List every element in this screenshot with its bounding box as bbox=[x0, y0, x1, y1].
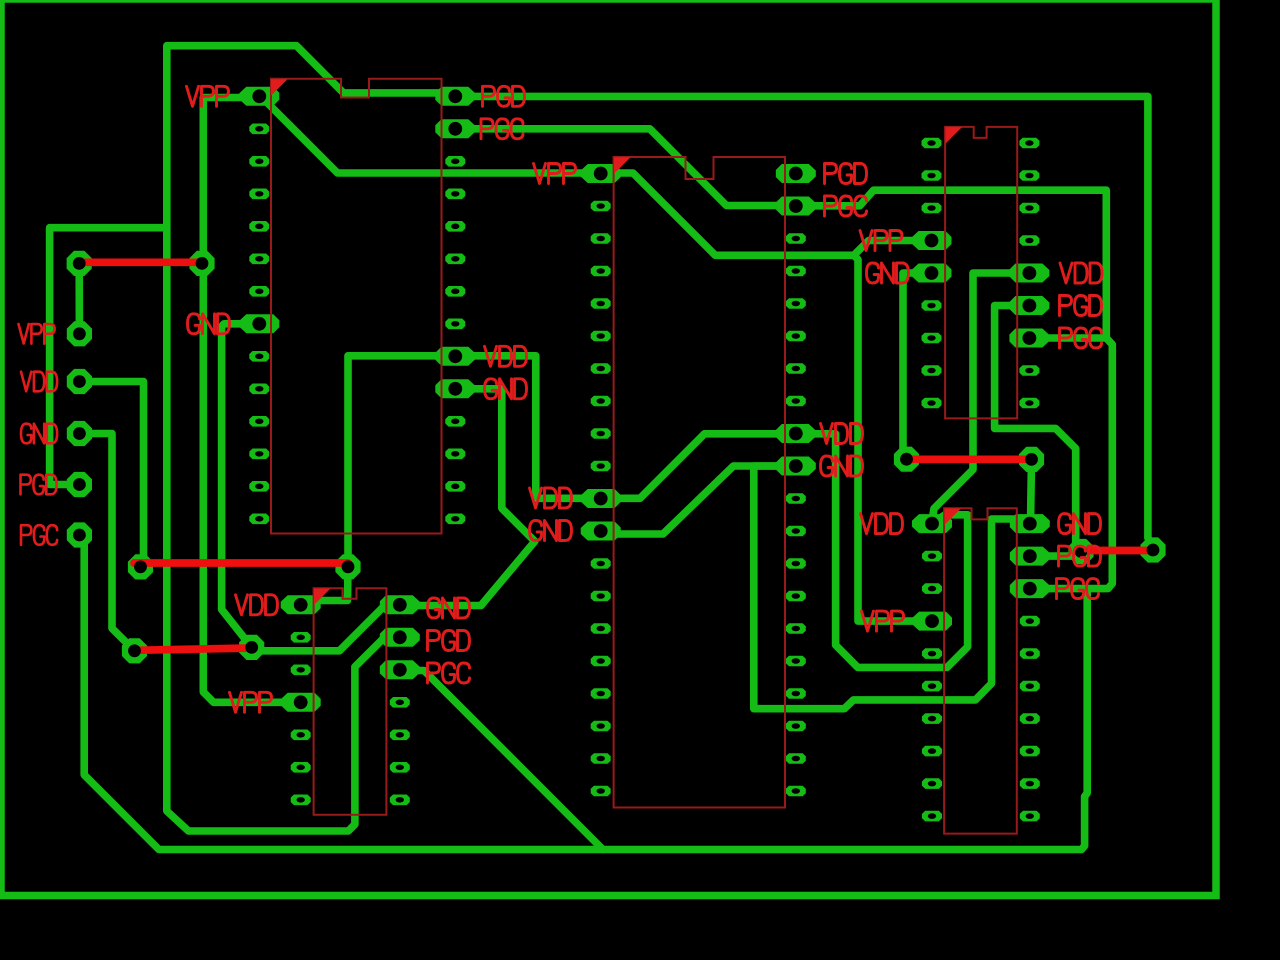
IC4 label PGD bbox=[1060, 296, 1102, 316]
IC5 label VDD bbox=[861, 514, 903, 534]
wire GND: via J4R down to IC5 GND bbox=[1031, 459, 1032, 523]
wire VDD: header VDD to via J2L bbox=[79, 382, 143, 567]
IC1 label PGD bbox=[483, 86, 525, 106]
IC2 pad PGC (right column row 3) bbox=[380, 660, 420, 679]
jumper wire J2 (VDD net, bottom layer) bbox=[134, 559, 348, 567]
wire PGC: IC4 PGC down to IC5 PGC bbox=[1030, 338, 1113, 589]
IC4 label GND bbox=[867, 263, 909, 283]
wire PGD: IC1 PGD west loop to IC2 PGD bbox=[167, 46, 456, 831]
via J4L (GND) bbox=[894, 447, 919, 472]
IC4 label VDD bbox=[1060, 263, 1102, 283]
header pin PGD pad bbox=[67, 472, 92, 497]
IC5 pin-1 marker triangle bbox=[945, 508, 962, 525]
IC3 pad GND (right column row 10) bbox=[776, 457, 816, 476]
wire VPP: IC1 VPP to IC3 VPP bbox=[268, 104, 601, 174]
IC5 label VPP bbox=[862, 611, 904, 631]
header label PGC bbox=[21, 525, 57, 545]
IC4 pad PGD (right column row 6) bbox=[1009, 296, 1049, 315]
IC2 label VDD bbox=[236, 595, 278, 615]
IC1 pad GND (right column row 10) bbox=[435, 379, 475, 398]
IC3 pin-1 marker triangle bbox=[614, 157, 631, 174]
IC1 label PGC bbox=[481, 119, 523, 139]
IC2 pad VPP (left column row 4) bbox=[281, 693, 321, 712]
via J5R (PGD) bbox=[1140, 537, 1165, 562]
IC2 pad GND (right column row 1) bbox=[380, 595, 420, 614]
IC3 pad VPP (left column row 1) bbox=[581, 164, 621, 183]
IC3 pad VDD (left column row 11) bbox=[581, 489, 621, 508]
wire GND: IC2 GND chevron up to IC1 GND-right bbox=[400, 389, 535, 606]
header label VDD bbox=[21, 372, 57, 392]
IC2 left column pin pads bbox=[291, 632, 311, 805]
IC4 label VPP bbox=[860, 231, 902, 251]
IC1 DIP socket silkscreen outline bbox=[271, 79, 442, 534]
IC4 pad GND (left column row 5) bbox=[912, 264, 952, 283]
via J5L (PGD) bbox=[1068, 539, 1093, 564]
wire VPP: via J1L to header VPP pin bbox=[75, 263, 83, 333]
via J2L (VDD) bbox=[128, 554, 153, 579]
jumper wire J3 (GND net, bottom layer) bbox=[135, 648, 252, 650]
IC1 label GND bbox=[188, 314, 230, 334]
via J3L (GND) bbox=[122, 638, 147, 663]
IC3 pad VDD (right column row 9) bbox=[776, 424, 816, 443]
via drill holes bbox=[73, 257, 1160, 657]
IC4 DIP socket silkscreen outline bbox=[945, 127, 1017, 419]
IC5 left column pin pads bbox=[922, 551, 942, 822]
header label GND bbox=[21, 424, 57, 444]
IC3 label VDD right bbox=[821, 424, 863, 444]
IC1 pad VPP (left column row 1) bbox=[239, 87, 279, 106]
IC1 right column pin pads bbox=[445, 156, 465, 524]
IC1 pad PGD (right column row 1) bbox=[435, 87, 475, 106]
IC3 right column pin pads bbox=[786, 233, 806, 796]
IC5 pad PGD (right column row 2) bbox=[1010, 547, 1050, 566]
IC1 pin-1 marker triangle bbox=[271, 79, 288, 96]
wire VDD: via J2R down to IC2 VDD bbox=[312, 567, 348, 601]
IC4 label PGC bbox=[1060, 328, 1102, 348]
wire PGD: via J5L up to IC4 PGD bbox=[995, 306, 1081, 552]
wire VPP: fork down to IC5 VPP bbox=[854, 255, 932, 621]
IC2 label GND bbox=[428, 598, 470, 618]
IC5 pad PGC (right column row 3) bbox=[1010, 579, 1050, 598]
wire GND: IC4 GND down to via J4L bbox=[903, 273, 932, 459]
IC3 pad PGD (right column row 1) bbox=[776, 164, 816, 183]
header label PGD bbox=[21, 475, 57, 495]
IC3 label PGC bbox=[825, 196, 867, 216]
via J3R (GND) bbox=[239, 635, 264, 660]
IC1 label VDD bbox=[485, 346, 527, 366]
jumper wire J1 (VPP net, bottom layer) bbox=[79, 258, 202, 266]
IC1 pad VDD (right column row 9) bbox=[435, 347, 475, 366]
IC5 DIP socket silkscreen outline bbox=[944, 508, 1017, 833]
IC5 label PGD bbox=[1059, 546, 1101, 566]
IC4 left column pin pads bbox=[922, 138, 942, 409]
IC3 label GND right bbox=[821, 456, 863, 476]
IC3 label PGD bbox=[825, 164, 867, 184]
wire GND: IC1 GND-left down to via J3R bbox=[222, 324, 260, 648]
IC4 right column pin pads bbox=[1019, 138, 1039, 409]
wire PGD: via J5L to IC5 PGD bbox=[1030, 552, 1081, 557]
via J1L (VPP) bbox=[67, 251, 92, 276]
header pin VDD pad bbox=[67, 369, 92, 394]
IC1 left column pin pads bbox=[249, 124, 269, 525]
wire VPP: IC3 VPP east to fork bbox=[601, 173, 854, 255]
wire PGC: IC1 PGC to IC3 PGC bbox=[455, 129, 796, 206]
wire VDD: via J2R up to IC1 VDD bbox=[348, 356, 455, 567]
wire PGD: header PGD to junction bbox=[50, 228, 167, 485]
IC2 label VPP bbox=[230, 692, 272, 712]
IC4 pad VDD (right column row 5) bbox=[1009, 264, 1049, 283]
IC2 pad PGD (right column row 2) bbox=[380, 628, 420, 647]
wire GND: via J3R to IC2 GND bbox=[252, 606, 400, 651]
IC5 pad VPP (left column row 4) bbox=[912, 612, 952, 631]
jumper wire J5 (PGD net, bottom layer) bbox=[1081, 547, 1153, 555]
header label VPP bbox=[19, 324, 55, 344]
wire PGC: IC3 PGC east down to IC4 PGC bbox=[796, 190, 1107, 338]
IC2 label PGC bbox=[428, 663, 470, 683]
wire GND: IC3 GND-left to IC3 GND-right bbox=[601, 466, 796, 534]
IC3 left column pin pads bbox=[591, 201, 611, 797]
via J2R (VDD) bbox=[335, 554, 360, 579]
IC1 pad PGC (right column row 2) bbox=[435, 119, 475, 138]
IC4 pad VPP (left column row 4) bbox=[912, 231, 952, 250]
IC3 label VPP bbox=[534, 164, 576, 184]
IC5 right column pin pads bbox=[1020, 616, 1040, 822]
IC1 label GND right bbox=[485, 379, 527, 399]
IC1 label VPP bbox=[187, 86, 229, 106]
wire VPP: fork to IC4 VPP bbox=[854, 241, 932, 256]
IC4 pin-1 marker triangle bbox=[946, 127, 963, 144]
IC2 right column pin pads bbox=[390, 697, 410, 805]
wire GND: IC3 GND-right loop to IC5 GND bbox=[754, 466, 1020, 709]
IC2 pin-1 marker triangle bbox=[314, 589, 331, 606]
wire VDD: IC3 VDD left to IC3 VDD right bbox=[601, 434, 796, 499]
IC1 pad GND (left column row 8) bbox=[239, 314, 279, 333]
via J4R (GND) bbox=[1019, 447, 1044, 472]
wire PGC: IC2 PGC diagonal to bottom trace bbox=[400, 671, 603, 850]
wire VPP: IC1 pin1 to via J1R and down to IC2 VPP bbox=[203, 98, 300, 703]
via J1R (VPP) bbox=[189, 251, 214, 276]
IC4 pad PGC (right column row 7) bbox=[1009, 329, 1049, 348]
jumper wire J4 (GND net, bottom layer) bbox=[907, 455, 1032, 463]
wire VDD: IC3 VDD right to IC5 VDD bbox=[796, 434, 968, 668]
wire PGD: IC1 PGD east to via J5R bbox=[455, 96, 1153, 550]
IC3 label VDD left bbox=[530, 488, 572, 508]
IC5 pad VDD (left column row 1) bbox=[912, 514, 952, 533]
IC3 DIP socket silkscreen outline bbox=[614, 157, 785, 808]
IC5 label PGC bbox=[1057, 579, 1099, 599]
wire VDD: IC4 VDD down to IC5 VDD bbox=[932, 273, 1029, 521]
wire GND: header GND to via J3L bbox=[79, 434, 134, 651]
wire PGC: IC5 PGC down along bottom to header PGC bbox=[84, 545, 1087, 850]
IC2 pad VDD (left column row 1) bbox=[281, 595, 321, 614]
IC5 pad GND (right column row 1) bbox=[1010, 514, 1050, 533]
IC3 pad PGC (right column row 2) bbox=[776, 197, 816, 216]
header pin GND pad bbox=[67, 421, 92, 446]
header pin PGC pad bbox=[67, 522, 92, 547]
IC2 label PGD bbox=[428, 631, 470, 651]
IC3 label GND left bbox=[530, 521, 572, 541]
wire VDD: IC1 VDD to IC3 VDD left bbox=[455, 356, 600, 499]
IC3 pad GND (left column row 12) bbox=[581, 522, 621, 541]
IC2 DIP socket silkscreen outline bbox=[314, 588, 387, 815]
IC5 label GND bbox=[1059, 514, 1101, 534]
header pin VPP pad bbox=[67, 321, 92, 346]
